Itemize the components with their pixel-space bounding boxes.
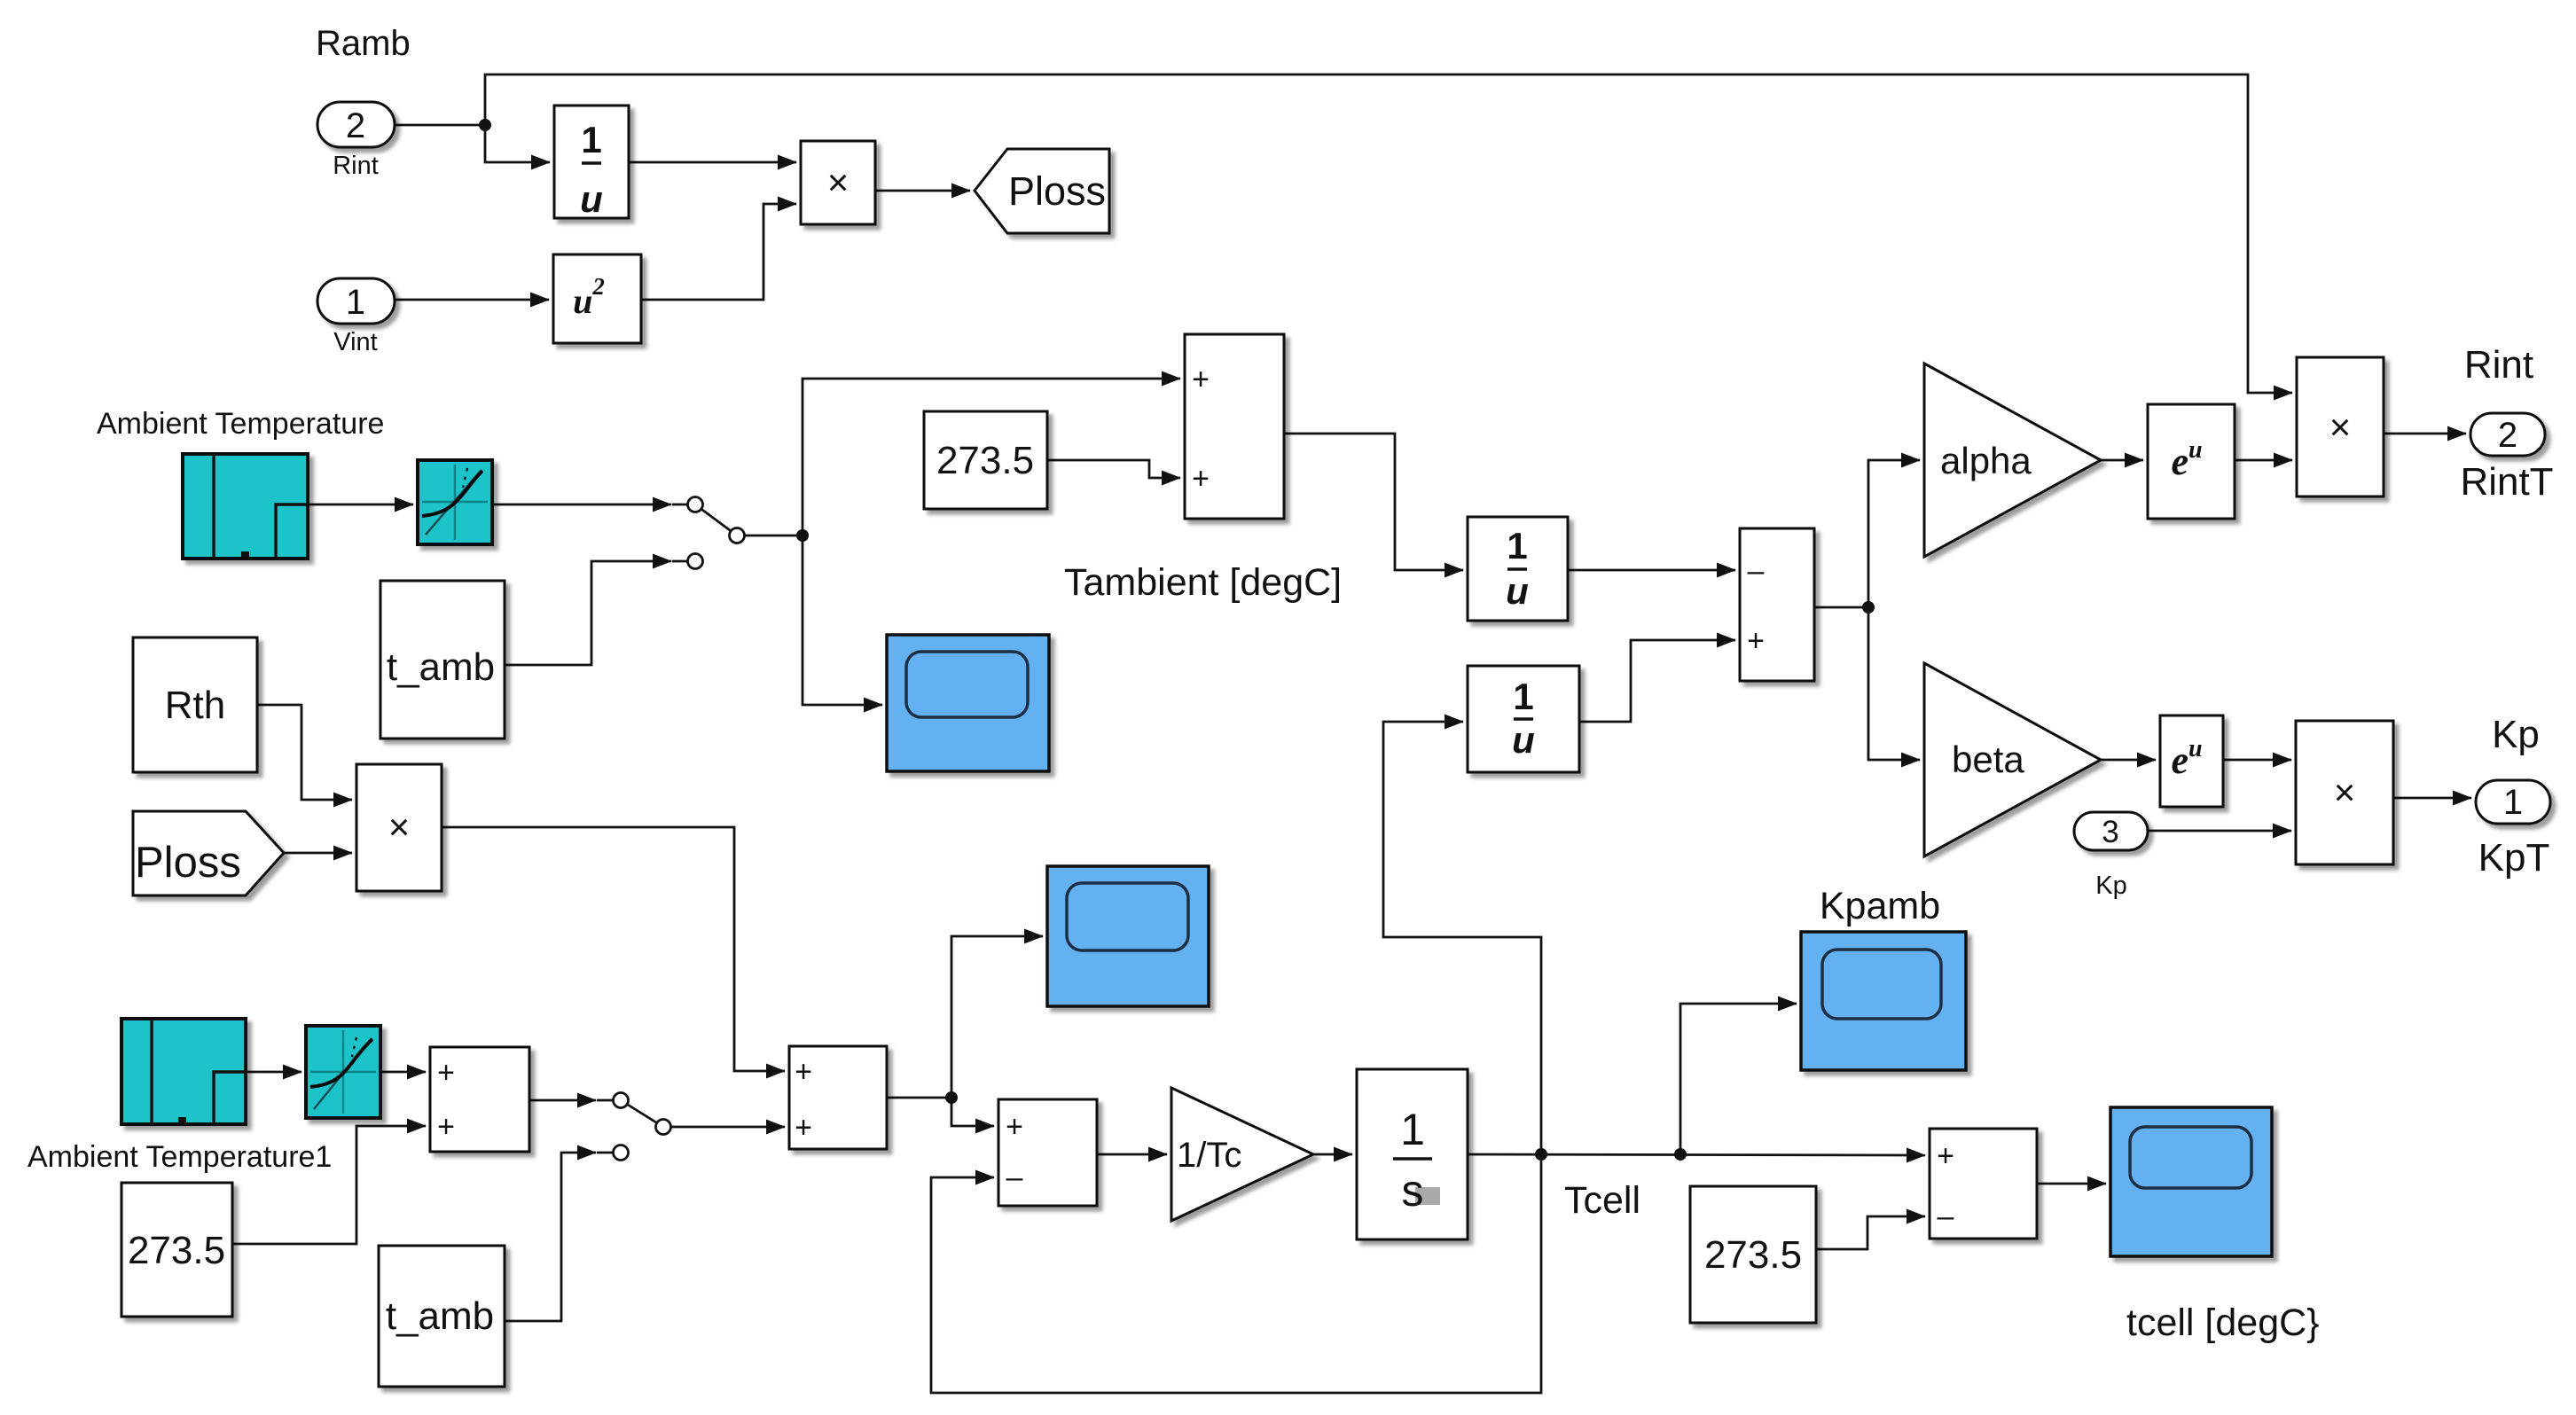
svg-text:2: 2 bbox=[346, 106, 365, 145]
svg-text:beta: beta bbox=[1952, 739, 2024, 780]
svg-text:Kp: Kp bbox=[2492, 713, 2540, 756]
svg-text:×: × bbox=[2329, 406, 2352, 448]
svg-text:+: + bbox=[1192, 363, 1210, 396]
svg-text:–: – bbox=[1938, 1200, 1954, 1233]
svg-text:+: + bbox=[1747, 624, 1765, 658]
svg-text:1: 1 bbox=[581, 119, 601, 160]
svg-text:–: – bbox=[1006, 1161, 1023, 1194]
svg-text:Ambient Temperature: Ambient Temperature bbox=[97, 407, 384, 441]
svg-text:+: + bbox=[795, 1111, 812, 1145]
svg-text:273.5: 273.5 bbox=[128, 1229, 225, 1272]
svg-text:t_amb: t_amb bbox=[387, 645, 495, 689]
svg-text:Ploss: Ploss bbox=[135, 839, 241, 887]
svg-text:Kp: Kp bbox=[2095, 872, 2126, 900]
svg-text:1: 1 bbox=[2503, 783, 2523, 822]
svg-text:RintT: RintT bbox=[2460, 460, 2553, 504]
svg-text:u: u bbox=[1512, 719, 1535, 761]
svg-text:1: 1 bbox=[346, 283, 365, 322]
svg-text:Ploss: Ploss bbox=[1008, 168, 1106, 214]
svg-text:Tambient [degC]: Tambient [degC] bbox=[1064, 561, 1342, 604]
svg-text:+: + bbox=[437, 1110, 455, 1144]
svg-text:Rint: Rint bbox=[2464, 343, 2533, 387]
svg-text:1/Tc: 1/Tc bbox=[1177, 1136, 1241, 1175]
svg-text:1: 1 bbox=[1400, 1105, 1425, 1154]
svg-text:3: 3 bbox=[2102, 815, 2118, 849]
svg-text:alpha: alpha bbox=[1940, 440, 2032, 481]
svg-text:+: + bbox=[1006, 1110, 1023, 1144]
svg-text:Tcell: Tcell bbox=[1564, 1179, 1640, 1222]
svg-text:u: u bbox=[580, 178, 603, 220]
svg-text:t_amb: t_amb bbox=[386, 1294, 494, 1338]
svg-text:273.5: 273.5 bbox=[936, 439, 1034, 482]
svg-text:1: 1 bbox=[1513, 676, 1533, 717]
svg-text:×: × bbox=[2334, 771, 2356, 813]
svg-text:KpT: KpT bbox=[2478, 836, 2550, 879]
svg-text:+: + bbox=[1937, 1139, 1954, 1173]
svg-text:2: 2 bbox=[2498, 416, 2517, 455]
svg-text:273.5: 273.5 bbox=[1704, 1233, 1802, 1277]
svg-text:–: – bbox=[1748, 554, 1765, 588]
svg-text:Rth: Rth bbox=[165, 684, 225, 727]
svg-text:+: + bbox=[795, 1055, 812, 1089]
svg-text:+: + bbox=[1192, 462, 1210, 496]
svg-text:1: 1 bbox=[1507, 525, 1527, 567]
svg-text:Ambient Temperature1: Ambient Temperature1 bbox=[27, 1140, 332, 1174]
svg-text:u: u bbox=[1506, 570, 1529, 612]
svg-text:+: + bbox=[437, 1056, 455, 1090]
svg-text:×: × bbox=[827, 161, 850, 203]
svg-text:Ramb: Ramb bbox=[316, 24, 411, 63]
svg-text:×: × bbox=[388, 806, 411, 848]
svg-text:Vint: Vint bbox=[333, 328, 377, 356]
svg-text:Rint: Rint bbox=[333, 152, 379, 180]
svg-text:Kpamb: Kpamb bbox=[1820, 885, 1940, 927]
svg-text:tcell [degC}: tcell [degC} bbox=[2126, 1302, 2320, 1344]
svg-text:s: s bbox=[1402, 1166, 1424, 1216]
